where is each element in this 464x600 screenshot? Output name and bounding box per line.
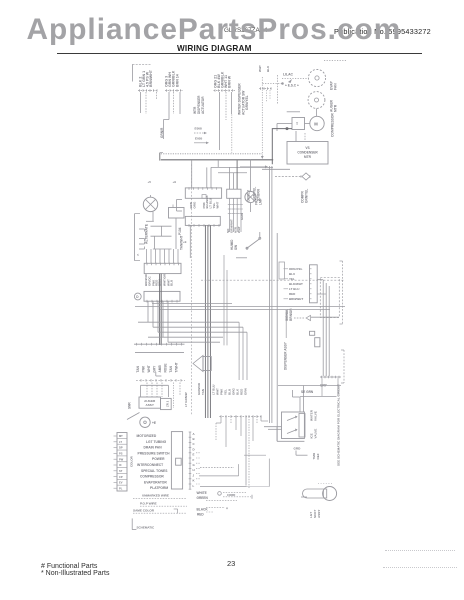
dotted wire to evaporator fan xyxy=(282,78,308,80)
terminal L1 xyxy=(139,229,145,232)
bracket grn top xyxy=(293,390,300,397)
label humidity switch xyxy=(230,239,238,250)
svg-text:CORD: CORD xyxy=(227,493,235,497)
switch lever xyxy=(127,413,140,420)
long rail a xyxy=(152,302,232,304)
wire relay to bus xyxy=(277,124,292,132)
svg-text:GRN/YEL: GRN/YEL xyxy=(305,189,309,203)
wire row r1 xyxy=(151,225,172,227)
stub drop b xyxy=(225,416,227,447)
wire drop from P2 pin 3 xyxy=(173,92,175,114)
svg-text:IC: IC xyxy=(119,463,122,467)
svg-text:M: M xyxy=(314,122,318,127)
door switch S3 xyxy=(236,232,261,258)
wire relay to compressor xyxy=(305,123,310,125)
bracket under P8 xyxy=(156,372,162,376)
label compressor ground xyxy=(301,189,309,203)
legend code cells xyxy=(119,434,124,491)
svg-text:PRESSURE SWITCH: PRESSURE SWITCH xyxy=(138,451,171,455)
vertical net x227 xyxy=(226,270,228,345)
svg-text:ASSY: ASSY xyxy=(317,509,321,518)
dashed stub rail xyxy=(219,415,262,418)
stair wire c xyxy=(199,464,239,476)
wire rail above valve xyxy=(278,385,341,387)
label evaporator fan xyxy=(330,80,338,90)
svg-text:DEF: DEF xyxy=(316,453,320,459)
cord wire red xyxy=(206,511,214,513)
svg-text:ZR 1: ZR 1 xyxy=(166,400,170,407)
page number 23 xyxy=(227,559,235,568)
wire dashes below P9 xyxy=(147,383,180,409)
circle D marker xyxy=(134,293,141,300)
bus line L1 xyxy=(161,159,273,161)
svg-text:+9: +9 xyxy=(173,180,177,184)
labels water dispenser actuator left xyxy=(193,95,205,114)
legend outer tick column xyxy=(114,436,117,488)
svg-text:GRN/YEL: GRN/YEL xyxy=(245,95,249,110)
junction arrow on lilac wire xyxy=(288,79,292,83)
svg-text:ACTUATOR: ACTUATOR xyxy=(201,96,205,114)
wire labels group 3 (defrost limit switch) xyxy=(214,71,232,88)
wires into valve box xyxy=(264,427,282,430)
title WIRING DIAGRAM xyxy=(177,44,252,53)
legend tall box xyxy=(171,432,182,489)
svg-text:ORG: ORG xyxy=(193,201,197,209)
legend strip ticks xyxy=(189,432,192,489)
water valve box xyxy=(282,412,306,439)
vertical net x224 xyxy=(223,255,225,345)
condenser fan motor box xyxy=(287,142,328,165)
svg-text:VS: VS xyxy=(305,146,309,150)
wire drops into connector J3 xyxy=(147,249,179,263)
left bracket J4 xyxy=(177,200,183,212)
svg-text:C: C xyxy=(193,442,196,446)
svg-text:DP: DP xyxy=(119,446,123,450)
svg-text:H: H xyxy=(193,468,195,472)
dashed vertical net xyxy=(191,164,193,415)
dotted rail drop B xyxy=(261,77,264,159)
svg-text:D: D xyxy=(193,447,195,451)
note bracket xyxy=(174,509,178,514)
auger aux box xyxy=(161,398,172,409)
svg-text:UNMARKED WIRE: UNMARKED WIRE xyxy=(142,494,169,498)
labels mid connector right xyxy=(212,385,248,395)
stub hook left xyxy=(216,416,221,441)
terminal strip right low xyxy=(320,376,341,379)
svg-text:LT: LT xyxy=(119,440,122,444)
svg-text:GRN: GRN xyxy=(240,213,244,220)
svg-text:GRN: GRN xyxy=(244,388,248,395)
svg-text:<: < xyxy=(137,253,139,257)
wire stub lower right xyxy=(262,168,290,170)
svg-text:B: B xyxy=(193,437,195,441)
wires from bus to connector J1 xyxy=(192,160,219,188)
svg-text:EVAPORATOR: EVAPORATOR xyxy=(144,480,167,484)
svg-text:LT GRN/W: LT GRN/W xyxy=(184,392,188,407)
strip drop a xyxy=(321,378,323,396)
wire into condenser box a xyxy=(295,131,297,142)
harness pair J3 to strip xyxy=(160,274,162,345)
strip P8 lower rail xyxy=(135,351,184,353)
wire drop to J2 p2 xyxy=(232,173,234,190)
svg-text:SCHEMATIC: SCHEMATIC xyxy=(137,526,155,530)
terminal L4 xyxy=(139,247,145,250)
tick verticals below J2 xyxy=(228,198,243,232)
svg-text:VALVE: VALVE xyxy=(314,429,318,439)
long rail c xyxy=(160,308,330,310)
svg-text:SPECIAL TONES: SPECIAL TONES xyxy=(141,469,168,473)
svg-text:T: T xyxy=(296,122,299,126)
connector strip P2 xyxy=(165,89,183,92)
terminal L2 xyxy=(139,239,145,242)
evaporator fan motor M1 xyxy=(308,69,325,86)
legend text rows xyxy=(137,434,171,490)
svg-text:SEE SCHEMATIC DIAGRAM FOR ELEC: SEE SCHEMATIC DIAGRAM FOR ELECTRICAL CIR… xyxy=(337,384,341,466)
svg-text:GRD: GRD xyxy=(294,447,302,451)
vertical harness right A xyxy=(268,166,270,423)
main harness lines xyxy=(205,225,210,418)
wire drop from P2 pin 2 xyxy=(168,92,170,113)
svg-text:VALVE: VALVE xyxy=(314,411,318,421)
svg-text:ASSY: ASSY xyxy=(145,403,154,407)
wire drop from P1 pin 6 xyxy=(156,92,158,100)
bus dotted neutral rail xyxy=(161,153,262,155)
svg-text:WHT: WHT xyxy=(215,202,219,209)
svg-text:SE GRN: SE GRN xyxy=(301,390,314,394)
svg-text:GRY: GRY xyxy=(153,365,157,373)
label water valve 2 xyxy=(310,429,318,439)
svg-text:BLU: BLU xyxy=(170,280,174,286)
wire drop from P1 pin 3 xyxy=(145,92,147,114)
wire drop from P1 pin 1 xyxy=(140,92,142,113)
wire stub above relay xyxy=(287,111,300,113)
svg-text:×: × xyxy=(226,507,228,511)
publication number xyxy=(334,27,431,36)
pin labels P8 xyxy=(136,362,179,372)
control board box xyxy=(310,265,318,303)
stair wire b xyxy=(200,467,234,469)
svg-text:D: D xyxy=(136,295,139,299)
terminal column P5 (ice maker harness) xyxy=(259,75,277,104)
svg-text:CONDENSER: CONDENSER xyxy=(297,151,318,155)
svg-text:PS: PS xyxy=(119,451,123,455)
wire to ref lamp xyxy=(150,195,152,197)
ground wire xyxy=(296,451,308,456)
arrow dispenser a xyxy=(194,132,207,135)
wire color rows at control box xyxy=(289,267,303,301)
terminal L3 xyxy=(139,242,145,245)
connector J5 xyxy=(144,291,180,302)
verticals comb to labels xyxy=(239,322,247,380)
svg-text:DRAIN PAN: DRAIN PAN xyxy=(144,446,163,450)
signal arrow xyxy=(285,308,311,321)
svg-text:T/WHT: T/WHT xyxy=(175,362,179,372)
label light socket xyxy=(309,509,321,518)
wire below freezer lamp xyxy=(250,203,252,212)
brace bracket xyxy=(135,214,141,261)
svg-text:RED: RED xyxy=(289,292,296,296)
svg-text:YEL: YEL xyxy=(289,277,295,281)
long dashed rail xyxy=(201,279,345,281)
svg-text:P104: P104 xyxy=(178,227,182,235)
svg-text:E: E xyxy=(193,453,195,457)
start relay box xyxy=(292,118,305,130)
svg-text:+5: +5 xyxy=(148,180,152,184)
dispenser motor xyxy=(140,417,150,427)
vertical harness right B xyxy=(271,166,273,423)
svg-text:PLATFORM: PLATFORM xyxy=(150,486,168,490)
svg-text:GRN/R: GRN/R xyxy=(160,127,164,138)
svg-text:DISPENSER ASSY: DISPENSER ASSY xyxy=(284,341,288,370)
svg-text:MTR: MTR xyxy=(304,155,312,159)
bottom right dotted smudge 2 xyxy=(383,567,457,568)
svg-text:WHITE: WHITE xyxy=(197,491,207,495)
bracket net right xyxy=(340,261,343,324)
vertical harness right D xyxy=(285,310,287,338)
svg-text:+E: +E xyxy=(183,240,187,244)
bracket net lower right xyxy=(341,350,344,383)
bottom right dotted smudge 1 xyxy=(385,550,455,551)
vertical harness right C xyxy=(276,233,278,441)
wires J5 to comb xyxy=(148,301,168,342)
svg-text:FAN: FAN xyxy=(334,83,338,90)
wire drop to J2 p3 xyxy=(236,160,238,189)
wire arrow stub right xyxy=(240,165,268,168)
junction dot relay wire xyxy=(286,128,288,130)
wire row r2 xyxy=(151,235,172,237)
header model number xyxy=(224,27,267,34)
buzzer arrow xyxy=(193,356,211,372)
svg-text:K: K xyxy=(193,479,196,483)
connector J4 xyxy=(185,216,220,226)
dotted wire stub ESC xyxy=(263,83,284,85)
svg-text:BRN W: BRN W xyxy=(228,75,232,88)
svg-text:P.O.P WIRE: P.O.P WIRE xyxy=(140,501,157,505)
label thermostat xyxy=(312,452,320,459)
wire labels group 5 xyxy=(258,65,270,72)
legend strip labels xyxy=(193,432,196,488)
svg-text:WHT: WHT xyxy=(147,365,151,372)
cord mid dashes xyxy=(206,500,237,502)
svg-text:GREEN: GREEN xyxy=(197,496,209,500)
wire top rail xyxy=(300,395,337,397)
svg-text:BLU: BLU xyxy=(289,272,295,276)
wire drop from P3 pin 1 xyxy=(219,92,221,150)
note row 1 xyxy=(133,494,187,499)
svg-text:WHT: WHT xyxy=(258,65,262,72)
wire auger to compressor xyxy=(316,109,318,117)
wire L from relay to bus corner xyxy=(272,129,292,165)
svg-text:POWER: POWER xyxy=(152,457,165,461)
wire labels group 2 (refrigerator door switch) xyxy=(165,70,180,87)
wire jog row a xyxy=(211,166,273,168)
wire to bulb xyxy=(301,496,307,498)
svg-text:TAN: TAN xyxy=(169,365,173,372)
svg-text:E008: E008 xyxy=(195,127,203,131)
svg-text:PNK: PNK xyxy=(142,365,146,372)
stair wire d xyxy=(200,459,269,487)
label auger motor xyxy=(330,99,338,112)
refrigerator lamp xyxy=(143,197,157,211)
svg-text:EV: EV xyxy=(119,481,123,485)
svg-text:TAN: TAN xyxy=(201,389,205,395)
dashed strip P9 xyxy=(136,379,185,382)
wire bus to freezer lamp xyxy=(250,160,252,192)
stub drop h xyxy=(252,416,254,441)
footer functional parts xyxy=(41,563,97,570)
svg-text:A: A xyxy=(193,432,196,436)
svg-text:SAME COLOR: SAME COLOR xyxy=(133,508,155,512)
svg-text:F: F xyxy=(193,458,195,462)
note row 3 xyxy=(133,508,187,513)
svg-text:BRN/WHT: BRN/WHT xyxy=(289,297,303,301)
stub drop d xyxy=(235,416,237,430)
svg-text:COMPRESSOR: COMPRESSOR xyxy=(140,475,164,479)
label water valve 1 xyxy=(310,409,318,421)
freezer lamp xyxy=(245,191,256,202)
valve box feed wires xyxy=(300,386,304,413)
wire below J4 pin1 xyxy=(189,225,191,258)
wire under valve box xyxy=(277,427,304,442)
wire row r3 xyxy=(153,248,172,250)
svg-text:BRN 14: BRN 14 xyxy=(176,74,180,87)
bus left bracket xyxy=(160,153,163,161)
svg-text:COLOR: COLOR xyxy=(130,455,134,467)
bracket over freezer-door switch group xyxy=(133,64,152,81)
wire drop from P2 pin 5 xyxy=(179,92,181,114)
wire labels group 1 (freezer door switch) xyxy=(139,69,154,87)
wire drop from P3 pin 5 xyxy=(231,92,233,114)
stair wire a xyxy=(244,454,266,456)
compressor motor M3 xyxy=(310,116,324,130)
control box right wires xyxy=(317,280,326,295)
connector J3 xyxy=(144,263,181,274)
stubs to control box xyxy=(284,269,312,299)
pin labels J3 xyxy=(144,273,174,286)
labels no-melt xyxy=(226,219,241,233)
svg-text:MTR: MTR xyxy=(334,104,338,112)
wire L into auger box xyxy=(141,385,169,397)
svg-text:TAN: TAN xyxy=(136,365,140,372)
connector strip P3 xyxy=(214,89,236,92)
cord wire black xyxy=(206,507,228,511)
svg-text:LGT TUBING: LGT TUBING xyxy=(146,440,167,444)
comb wire 4 xyxy=(148,336,223,338)
cord wire white xyxy=(223,492,246,494)
watermark AppliancePartsPros.com xyxy=(27,13,402,47)
connector strip P1 xyxy=(138,89,158,92)
stub long g xyxy=(248,416,250,489)
svg-text:PW: PW xyxy=(119,457,124,461)
svg-text:BRN/WHT: BRN/WHT xyxy=(149,69,153,87)
svg-text:LILAC: LILAC xyxy=(283,73,294,77)
svg-text:MT: MT xyxy=(119,434,123,438)
label GRN/YEL ST xyxy=(253,187,261,201)
auger motor M2 xyxy=(308,92,325,109)
svg-text:WHT: WHT xyxy=(237,226,241,233)
svg-text:AMB: AMB xyxy=(158,365,162,373)
svg-text:PL: PL xyxy=(119,487,123,491)
comb wire 5 xyxy=(168,341,220,343)
schematic corner bracket xyxy=(132,518,136,529)
component box K1 xyxy=(169,205,185,219)
svg-text:J: J xyxy=(193,473,195,477)
svg-text:MOTORIZED: MOTORIZED xyxy=(137,434,157,438)
comb wire 3 xyxy=(158,331,247,333)
stub long f xyxy=(245,416,247,485)
connector J1 xyxy=(185,187,221,198)
dotted rail drop A xyxy=(231,114,233,152)
wire labels group 4 (water dispenser actuator) xyxy=(238,83,250,115)
dashed junction box right xyxy=(320,277,339,317)
legend tick box xyxy=(117,433,127,492)
connector J2 xyxy=(227,189,241,198)
long rail b xyxy=(135,305,345,307)
light socket bulb xyxy=(303,484,337,501)
svg-text:LT BLU: LT BLU xyxy=(289,287,299,291)
svg-text:INTERCONNECT: INTERCONNECT xyxy=(137,463,163,467)
wire drop to J2 p1 xyxy=(229,167,231,189)
svg-text:RED: RED xyxy=(197,513,204,517)
svg-text:+E: +E xyxy=(152,421,156,425)
comb wire 1 xyxy=(138,321,239,323)
wire drop r1-r2 xyxy=(161,226,163,236)
fuse box xyxy=(315,338,320,347)
svg-text:BLK: BLK xyxy=(266,65,270,72)
svg-text:ORG/YEL: ORG/YEL xyxy=(289,267,303,271)
nested harness lines xyxy=(323,280,329,376)
stub drop c xyxy=(230,416,232,424)
power cord labels xyxy=(197,491,209,517)
wire into condenser box b xyxy=(304,133,306,142)
labels mid connector left xyxy=(197,382,205,395)
note row 2 xyxy=(140,501,187,506)
dotted reference line top right xyxy=(324,60,347,62)
svg-text:LMP: LMP xyxy=(259,197,263,205)
label freezer lamp xyxy=(255,197,263,205)
compressor ground diamond xyxy=(275,173,310,180)
svg-text:L: L xyxy=(193,484,195,488)
svg-text:SNR: SNR xyxy=(128,402,132,409)
cord wire green xyxy=(223,495,252,499)
svg-text:SW: SW xyxy=(234,245,238,250)
wire from signal to right xyxy=(311,316,339,318)
wire lamp to row xyxy=(146,212,154,222)
svg-text:COMPRESSOR: COMPRESSOR xyxy=(331,113,335,137)
stub wires legend top xyxy=(196,453,200,484)
svg-text:BLACK: BLACK xyxy=(197,508,209,512)
svg-text:G: G xyxy=(193,463,196,467)
wire drop k1 xyxy=(175,218,177,249)
svg-text:BLK/WHT: BLK/WHT xyxy=(289,282,303,286)
svg-text:+ E.S.C +: + E.S.C + xyxy=(285,84,299,88)
wire drop r2-r3 xyxy=(153,236,155,249)
stub hook right xyxy=(261,416,268,421)
strip drop b xyxy=(337,378,339,396)
svg-text:ST: ST xyxy=(119,469,123,473)
wire jog to node GRN/R xyxy=(164,113,170,139)
small node box a xyxy=(310,331,315,335)
svg-text:CP: CP xyxy=(119,475,123,479)
wire jog row b xyxy=(218,172,247,174)
svg-text:ALTERNATE: ALTERNATE xyxy=(145,223,149,244)
pin labels J1 xyxy=(189,195,219,209)
small rect node xyxy=(279,262,285,279)
auger assy box xyxy=(139,397,161,408)
stub drop i xyxy=(256,416,258,424)
arrow dispenser b xyxy=(194,142,209,145)
title rule xyxy=(57,53,422,55)
